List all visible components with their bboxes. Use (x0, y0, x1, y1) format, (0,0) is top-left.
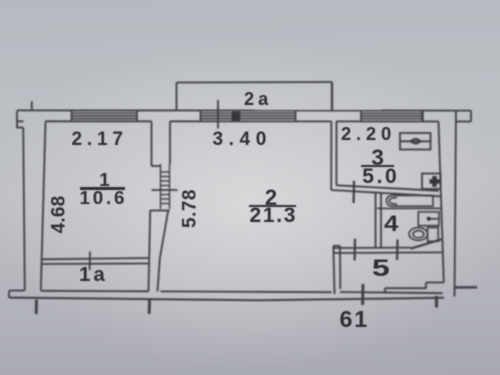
label room 3 area 5.0 (362, 166, 399, 187)
node tick bottom mid-right (361, 284, 364, 305)
wall kitchen 3 bottom (331, 185, 440, 196)
wall between room 2 and kitchen 3 (331, 121, 336, 190)
node tick divider 1a (89, 252, 91, 271)
node tick bottom left (35, 300, 38, 314)
label note 61 (340, 308, 369, 331)
label room 2 area 21.3 (250, 205, 298, 226)
node dimension tick 3.40 (217, 100, 219, 129)
label dim 3.40 (213, 130, 272, 149)
label room 1 area 10.6 (80, 189, 128, 208)
label room 1a (79, 265, 108, 286)
label room 4 (384, 213, 398, 236)
wall between room 1 and room 2 upper (152, 121, 171, 166)
node toilet (409, 228, 438, 242)
label dim 4.68 rotated (50, 191, 69, 237)
node bathtub (377, 195, 441, 208)
label room 2 fraction line (249, 205, 296, 207)
label room 1 number (99, 171, 109, 190)
window W3 kitchen (361, 111, 423, 122)
wall hall 5 top (333, 248, 442, 253)
label room 3 fraction line (361, 165, 395, 167)
wire top wall bottom edge segments (17, 120, 471, 122)
node tick above top-left wall (31, 101, 33, 110)
wall divider room 1 / 1a (41, 258, 149, 264)
node tick bottom mid (148, 300, 151, 314)
label room 2 number (265, 187, 277, 209)
wire top wall outer top edge (17, 109, 471, 111)
label dim 2.20 (341, 125, 396, 143)
wall room2 right lower stub (333, 246, 340, 294)
label dim 2.17 (72, 130, 128, 149)
wall bottom outer (9, 283, 444, 301)
window W2 balcony wall (201, 111, 296, 122)
label room 3 number (371, 147, 384, 170)
node sink (418, 212, 439, 226)
node tick kitchen door (353, 181, 356, 203)
wire top wall right end cap (470, 111, 472, 122)
window W1 room 1 (72, 110, 138, 121)
window door ladder between rooms 1 and 2 (161, 164, 170, 209)
node tick bottom right (435, 296, 438, 308)
node tick hall right (396, 240, 399, 261)
node tick door 1-2 (152, 189, 178, 191)
wall bathroom 4 left (376, 193, 382, 249)
wire top wall left end cap with foot (17, 111, 23, 128)
wall left outer (23, 121, 45, 290)
node stove (400, 133, 431, 150)
node balcony door blob (232, 112, 241, 121)
wall between room 1 and room 2 lower (149, 211, 170, 292)
node vent box (422, 174, 441, 190)
label dim 5.78 rotated (180, 181, 199, 235)
label room 1 fraction line (80, 187, 125, 189)
wire bathroom diagonal (411, 239, 442, 248)
wall right outer (439, 111, 457, 297)
wire right stub (456, 286, 478, 289)
label balcony 2a (244, 90, 272, 108)
node tick hall left (354, 239, 357, 261)
wire balcony 2a outline (177, 82, 333, 111)
label room 5 (372, 257, 390, 282)
